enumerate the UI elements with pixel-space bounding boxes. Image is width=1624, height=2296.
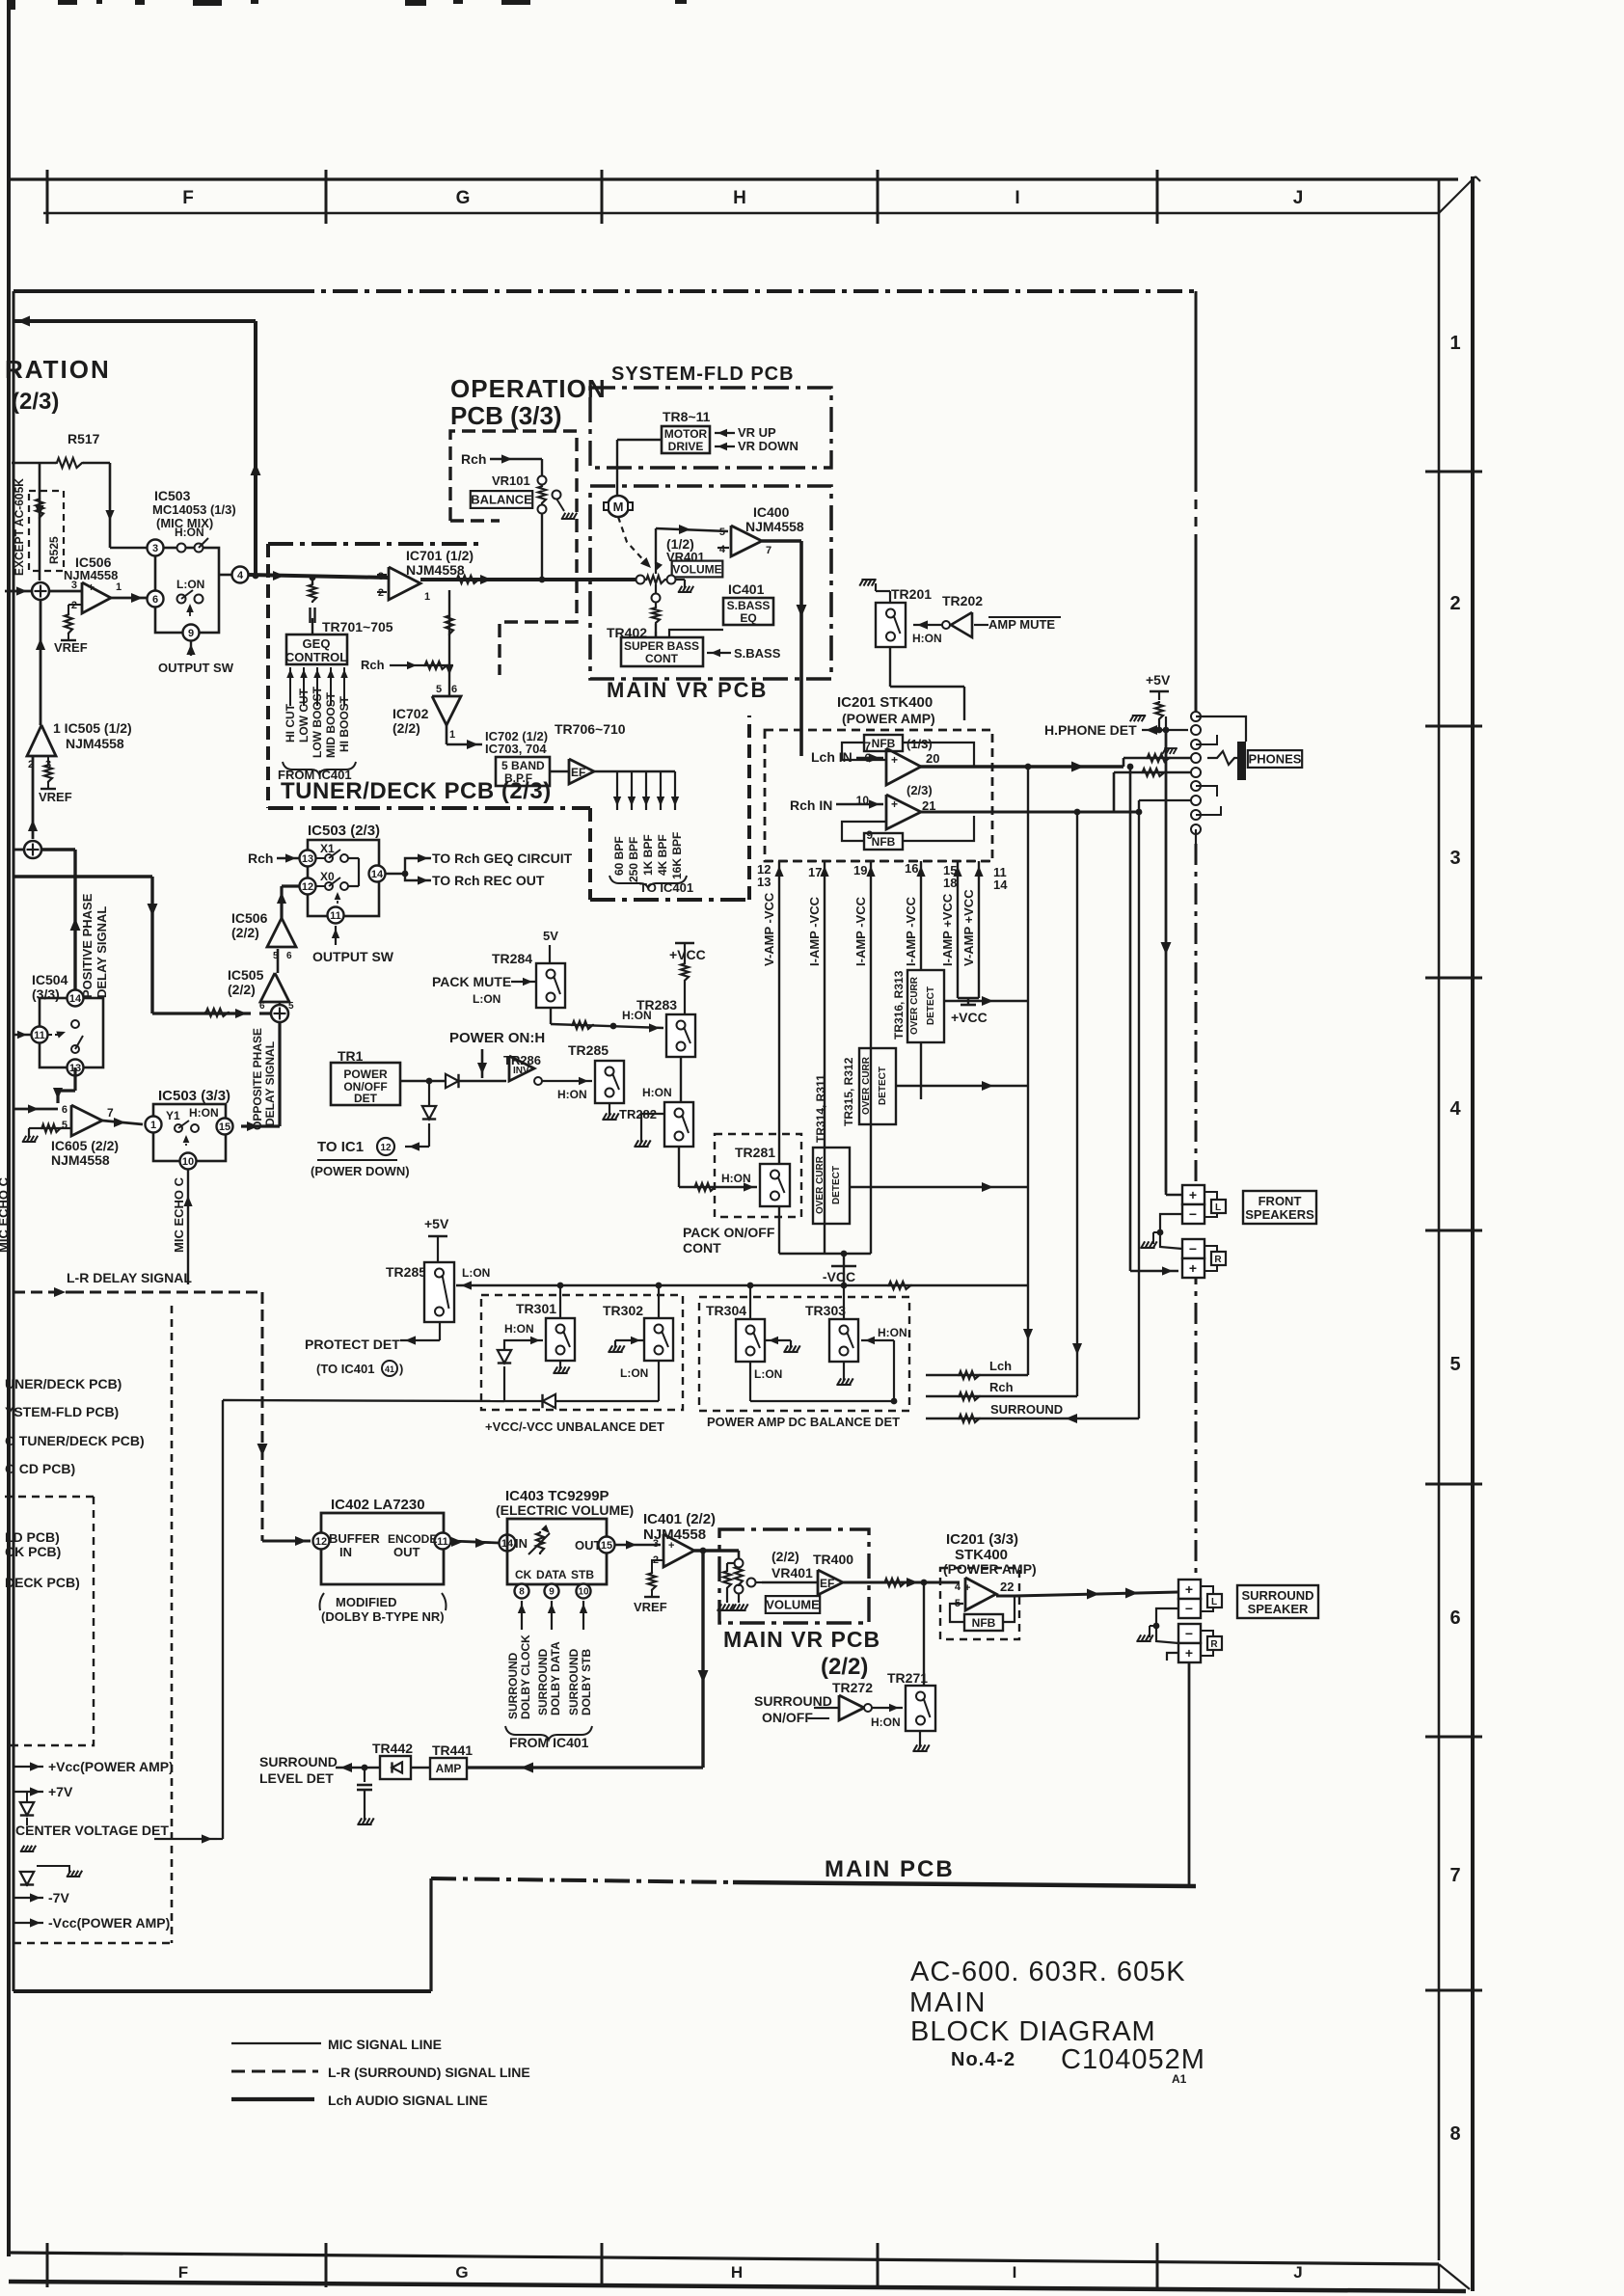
svg-text:FROM IC401: FROM IC401: [509, 1735, 589, 1750]
EF out wire to IC201 (3/3): [843, 1581, 960, 1584]
TR302 switch box: [658, 1285, 660, 1318]
svg-text:O TUNER/DECK PCB): O TUNER/DECK PCB): [5, 1433, 145, 1448]
svg-text:12: 12: [315, 1536, 327, 1548]
MIC ECHO C wire from node 10 down: [187, 1170, 189, 1284]
svg-text:+7V: +7V: [48, 1784, 73, 1799]
bottom ruler band: [9, 2253, 1439, 2264]
over current outputs to bus: [944, 1000, 1028, 1002]
svg-text:+: +: [1185, 1645, 1193, 1661]
svg-text:R: R: [1210, 1639, 1218, 1650]
wire IC402 out to IC403 in: [451, 1541, 499, 1543]
svg-text:H:ON: H:ON: [871, 1715, 901, 1729]
svg-text:IC702: IC702: [392, 706, 429, 721]
svg-text:14: 14: [371, 869, 384, 880]
ground pair below center voltage det: [37, 1865, 56, 1867]
summing node (+) left: [5, 590, 32, 593]
svg-text:PACK MUTE: PACK MUTE: [432, 974, 511, 989]
MAIN PCB bottom step: [429, 1878, 432, 1991]
+Vcc (POWER AMP) arrow label: [14, 1766, 43, 1768]
svg-text:6: 6: [286, 951, 292, 961]
svg-text:): ): [399, 1362, 403, 1376]
TR303 base arrow: [861, 1339, 894, 1341]
S.BASS arrow into super bass cont: [707, 652, 731, 654]
TUNER/DECK PCB (2/3) dash-dot boundary: [268, 542, 479, 546]
svg-text:CONTROL: CONTROL: [285, 650, 347, 664]
svg-text:Lch AUDIO SIGNAL LINE: Lch AUDIO SIGNAL LINE: [328, 2093, 488, 2108]
svg-text:BUFFER: BUFFER: [329, 1531, 380, 1546]
svg-text:MAIN VR PCB: MAIN VR PCB: [607, 678, 768, 702]
svg-text:6: 6: [152, 594, 158, 606]
svg-text:Rch: Rch: [361, 658, 385, 672]
svg-text:+VCC: +VCC: [951, 1010, 988, 1025]
svg-text:(TO IC401: (TO IC401: [316, 1362, 374, 1376]
main Lch wire through operation pcb: [249, 575, 389, 578]
TR304 base arrow + ground: [765, 1339, 791, 1341]
svg-text:+5V: +5V: [1146, 672, 1171, 688]
wire across to unbalance diode: [223, 1400, 504, 1401]
svg-text:MAIN PCB: MAIN PCB: [825, 1856, 955, 1882]
surround output wire to speaker: [996, 1595, 1015, 1598]
svg-text:J: J: [1293, 2263, 1302, 2282]
TR285 mid ground: [609, 1103, 610, 1116]
surround speaker R tab: [1201, 1631, 1213, 1636]
svg-text:+5V: +5V: [424, 1216, 449, 1231]
TR285 mid switch box: [595, 1061, 624, 1103]
svg-text:15: 15: [219, 1121, 230, 1133]
TR202 inverter (points left): [951, 612, 972, 637]
left page border line: [7, 0, 11, 2256]
svg-text:No.4-2: No.4-2: [951, 2049, 1015, 2070]
IC505 VREF resistor: [47, 756, 49, 764]
svg-text:L: L: [1211, 1597, 1217, 1607]
wire IC605 out to node1: [102, 1121, 143, 1124]
IC401 output wire right + down: [694, 1549, 739, 1552]
svg-text:(2/2): (2/2): [231, 925, 259, 940]
TR400 EF buffer: [818, 1570, 843, 1595]
svg-text:MOTOR: MOTOR: [664, 427, 708, 441]
wire from IC701 down to IC702: [448, 590, 450, 665]
bottom ruler corner cell with diagonal: [1438, 2264, 1440, 2291]
svg-text:2: 2: [1449, 593, 1460, 614]
main detect feed wire: [456, 1284, 1028, 1286]
svg-text:TR706~710: TR706~710: [555, 721, 626, 737]
wire VR401 wiper up to IC400 +input: [655, 528, 657, 564]
svg-text:VR101: VR101: [492, 473, 530, 488]
svg-text:15: 15: [601, 1540, 612, 1552]
svg-text:IC503: IC503: [154, 488, 191, 503]
wire TR283 down to TR282: [680, 1057, 682, 1102]
svg-text:Rch: Rch: [248, 851, 273, 866]
svg-text:VREF: VREF: [39, 790, 72, 804]
svg-text:13: 13: [757, 875, 771, 889]
svg-text:MODIFIED: MODIFIED: [336, 1595, 397, 1609]
svg-text:TR442: TR442: [372, 1741, 413, 1756]
svg-text:+: +: [1185, 1581, 1193, 1597]
junction to TR271: [923, 1582, 925, 1686]
svg-text:OUTPUT SW: OUTPUT SW: [158, 661, 234, 675]
svg-text:AC-600. 603R. 605K: AC-600. 603R. 605K: [910, 1957, 1186, 1987]
svg-text:TR314, R311: TR314, R311: [814, 1074, 827, 1143]
svg-text:V-AMP -VCC: V-AMP -VCC: [762, 892, 776, 966]
TR285 protect switch box: [424, 1262, 454, 1322]
svg-text:DOLBY STB: DOLBY STB: [580, 1649, 593, 1715]
wire from left into node 11: [14, 1034, 31, 1036]
I-AMP -VCC supply wire pin16: [920, 861, 922, 970]
svg-text:NFB: NFB: [972, 1616, 996, 1630]
svg-text:1: 1: [424, 591, 430, 603]
ground above TR201: [876, 590, 890, 592]
svg-text:NJM4558: NJM4558: [51, 1152, 110, 1168]
svg-text:1K BPF: 1K BPF: [641, 834, 655, 876]
svg-text:TR201: TR201: [891, 586, 932, 602]
svg-text:TR1: TR1: [338, 1048, 364, 1064]
svg-text:TR284: TR284: [492, 951, 532, 966]
VR401 node below wiper: [652, 594, 661, 603]
-Vcc (POWER AMP) arrow label: [14, 1922, 43, 1924]
svg-text:5: 5: [1449, 1354, 1460, 1375]
wire below surround speaker to main pcb boundary: [1188, 1662, 1191, 1886]
-7V arrow label: [14, 1897, 43, 1899]
motor M symbol: [608, 496, 629, 517]
surround speaker terminal block: [1178, 1580, 1201, 1599]
svg-text:5: 5: [288, 1001, 294, 1012]
power amp dashed box bottom pins row: [765, 860, 992, 863]
svg-text:IC503 (2/3): IC503 (2/3): [308, 823, 380, 839]
svg-text:3: 3: [71, 580, 77, 591]
TR282 wire down to TR281: [678, 1147, 680, 1187]
IC504 switch contacts: [71, 1020, 79, 1028]
svg-text:SPEAKERS: SPEAKERS: [1245, 1207, 1314, 1222]
svg-text:5: 5: [719, 527, 725, 538]
svg-text:H.PHONE DET: H.PHONE DET: [1044, 722, 1137, 738]
svg-text:TO IC401: TO IC401: [639, 880, 693, 895]
svg-text:6: 6: [259, 1001, 265, 1012]
svg-text:TR316, R313: TR316, R313: [892, 970, 906, 1040]
svg-text:GEQ: GEQ: [303, 636, 331, 651]
TR283 switch box: [666, 1014, 695, 1057]
switch contacts row 2: [177, 595, 186, 604]
svg-text:(POWER DOWN): (POWER DOWN): [311, 1164, 410, 1178]
svg-text:L:ON: L:ON: [620, 1366, 648, 1380]
wire from summing node down (MIC vertical): [40, 600, 42, 725]
switch contacts row 1: [177, 544, 186, 553]
TR284 switch box: [536, 963, 565, 1008]
svg-text:SYSTEM-FLD PCB: SYSTEM-FLD PCB: [611, 364, 795, 385]
ground right of VR401: [675, 579, 685, 581]
svg-text:DETECT: DETECT: [926, 986, 936, 1025]
svg-text:41: 41: [385, 1364, 394, 1374]
svg-text:A1: A1: [1172, 2072, 1187, 2086]
svg-text:+: +: [668, 1540, 674, 1552]
VOLUME boxed label: [672, 561, 723, 578]
svg-text:LOW BOOST: LOW BOOST: [311, 686, 324, 758]
svg-text:TR8~11: TR8~11: [663, 409, 711, 424]
svg-text:TR701~705: TR701~705: [322, 619, 393, 635]
resistor R525 dashed box: [29, 491, 64, 571]
svg-text:X1: X1: [320, 842, 335, 855]
thick wire down x78 to IC504: [73, 850, 76, 998]
IC402 box: [321, 1513, 444, 1584]
svg-text:I: I: [1015, 188, 1019, 208]
supply bus bottom tie: [779, 1253, 871, 1255]
NFB box lower: [864, 833, 903, 850]
svg-text:+: +: [1189, 1260, 1197, 1276]
svg-text:TR304: TR304: [706, 1303, 746, 1318]
svg-text:I: I: [1013, 2263, 1017, 2282]
TR1 POWER ON/OFF DET box: [331, 1063, 400, 1105]
svg-text:CK: CK: [515, 1568, 532, 1581]
svg-text:−: −: [1185, 1626, 1193, 1641]
wire L-R into IC402 node 12: [261, 1535, 264, 1541]
node14 wire to outputs: [386, 873, 405, 875]
-VCC symbol under bus: [831, 1265, 856, 1268]
svg-text:5 BAND: 5 BAND: [501, 759, 545, 772]
svg-text:AMP MUTE: AMP MUTE: [988, 617, 1055, 632]
svg-text:OVER CURR: OVER CURR: [909, 976, 920, 1035]
svg-text:TR281: TR281: [735, 1145, 775, 1160]
TR284 wire down and right to TR283: [550, 1008, 552, 1024]
NFB box surround: [964, 1614, 1003, 1631]
thick wire down to surround level amp: [701, 1551, 704, 1768]
TR301 ground: [559, 1361, 561, 1369]
svg-text:(2/2): (2/2): [392, 720, 420, 736]
svg-text:20: 20: [926, 751, 939, 766]
TO IC401 brace under BPF: [609, 876, 687, 888]
svg-text:(2/3): (2/3): [907, 783, 933, 797]
svg-text:INV: INV: [513, 1066, 529, 1076]
svg-text:TR272: TR272: [832, 1680, 873, 1695]
svg-text:BALANCE: BALANCE: [471, 493, 532, 507]
svg-text:(ELECTRIC VOLUME): (ELECTRIC VOLUME): [496, 1502, 634, 1518]
TR282 switch box: [664, 1102, 693, 1147]
svg-text:IC503 (3/3): IC503 (3/3): [158, 1088, 230, 1104]
svg-text:H:ON: H:ON: [878, 1326, 907, 1339]
wire from motor drive to motor: [617, 439, 662, 441]
svg-text:M: M: [613, 500, 624, 514]
svg-text:250 BPF: 250 BPF: [627, 837, 640, 882]
TR272 inverter: [839, 1695, 864, 1720]
svg-text:+VCC/-VCC UNBALANCE DET: +VCC/-VCC UNBALANCE DET: [485, 1419, 664, 1434]
wire node4 to right joining bus: [219, 574, 231, 577]
svg-text:OPERATION: OPERATION: [450, 374, 607, 403]
TR282 side ground: [641, 1114, 664, 1143]
svg-text:FROM IC401: FROM IC401: [278, 768, 352, 782]
inner dashed box (FLD/deck pcb feeds): [5, 1497, 94, 1745]
svg-text:14: 14: [69, 993, 82, 1005]
wire phones row down to front speakers Lch: [1165, 730, 1168, 1192]
svg-text:DECK PCB): DECK PCB): [5, 1575, 80, 1590]
IC504 switch box: [40, 998, 103, 1067]
svg-text:Rch: Rch: [461, 451, 486, 467]
svg-text:19: 19: [853, 863, 867, 878]
svg-text:DOLBY DATA: DOLBY DATA: [549, 1641, 562, 1715]
wire front speaker + L from bus: [1165, 1192, 1168, 1195]
unbalance det bottom wire with diode: [504, 1400, 659, 1402]
svg-text:MAIN VR PCB: MAIN VR PCB: [723, 1627, 880, 1652]
scan marks at top edge: [8, 0, 15, 10]
wire IC505(2/2) to IC506(2/2): [277, 949, 280, 973]
diode at left rail bottom: [26, 1873, 28, 1886]
speaker feed junction dots: [1163, 727, 1170, 734]
thick wire IC504 node13 down to IC605: [73, 1067, 76, 1091]
surround dolby clock/data/stb feeds: [521, 1601, 523, 1630]
svg-text:F: F: [178, 2263, 188, 2282]
svg-text:IC505: IC505: [228, 967, 264, 983]
svg-text:VOLUME: VOLUME: [766, 1598, 820, 1612]
SUPER BASS CONT box: [621, 637, 703, 666]
SURROUND SPEAKER boxed label: [1237, 1585, 1318, 1618]
IC403 box: [507, 1519, 607, 1584]
svg-text:H:ON: H:ON: [642, 1086, 672, 1099]
svg-text:O CD PCB): O CD PCB): [5, 1461, 75, 1476]
svg-text:POWER ON:H: POWER ON:H: [449, 1030, 545, 1046]
wire down to IC503 pin3: [109, 463, 112, 548]
svg-text:SPEAKER: SPEAKER: [1248, 1602, 1309, 1616]
svg-text:TO Rch REC OUT: TO Rch REC OUT: [432, 873, 545, 888]
svg-text:5: 5: [436, 684, 442, 695]
svg-text:DETECT: DETECT: [831, 1166, 842, 1204]
svg-text:EF: EF: [571, 766, 585, 779]
MOTOR DRIVE box: [662, 426, 710, 453]
svg-text:TR315, R312: TR315, R312: [842, 1057, 855, 1126]
svg-text:AMP: AMP: [436, 1762, 462, 1775]
svg-text:DELAY SIGNAL: DELAY SIGNAL: [263, 1041, 277, 1126]
svg-text:IC402 LA7230: IC402 LA7230: [331, 1497, 425, 1513]
svg-text:NFB: NFB: [872, 737, 896, 750]
svg-text:17: 17: [808, 865, 822, 879]
svg-text:8: 8: [1449, 2123, 1460, 2145]
+7V arrow label: [14, 1791, 43, 1793]
OPERATION PCB (3/3) dashed box: [450, 431, 577, 675]
svg-text:VR UP: VR UP: [738, 425, 776, 440]
svg-text:TR271: TR271: [887, 1670, 928, 1686]
svg-text:MIC ECHO C: MIC ECHO C: [0, 1176, 11, 1253]
svg-text:-7V: -7V: [48, 1890, 69, 1905]
Rch output wire to phones: [919, 811, 1139, 814]
zener diodes on left rail: [26, 1792, 28, 1805]
svg-text:H:ON: H:ON: [504, 1322, 534, 1336]
resistor below VR401 to super bass: [655, 603, 657, 608]
svg-text:CONT: CONT: [683, 1240, 721, 1256]
VOLUME boxed label 2: [766, 1596, 820, 1613]
svg-text:OUTPUT SW: OUTPUT SW: [312, 949, 394, 964]
wire down from R517 to summing node: [39, 463, 41, 581]
svg-text:NJM4558: NJM4558: [406, 562, 465, 578]
L-R delay dashed wire: [14, 1291, 72, 1294]
svg-text:6: 6: [451, 684, 457, 695]
TR302 base ground: [615, 1339, 644, 1341]
surround speaker L tab: [1201, 1586, 1213, 1594]
svg-text:TR202: TR202: [942, 593, 983, 608]
svg-text:10: 10: [578, 1587, 589, 1598]
svg-text:VR401: VR401: [771, 1565, 813, 1580]
svg-text:L-R DELAY SIGNAL: L-R DELAY SIGNAL: [67, 1270, 192, 1285]
svg-text:Rch: Rch: [989, 1380, 1014, 1394]
front speakers terminal block: [1182, 1185, 1204, 1204]
svg-text:EF: EF: [820, 1577, 834, 1590]
svg-text:L:ON: L:ON: [462, 1266, 490, 1280]
svg-text:POWER: POWER: [343, 1067, 388, 1081]
NFB loop surround: [950, 1604, 964, 1622]
svg-text:MC14053 (1/3): MC14053 (1/3): [152, 502, 236, 517]
TR281 dashed box: [715, 1134, 801, 1217]
ground at phones contact 1: [1130, 716, 1146, 721]
svg-text:IC401: IC401: [728, 581, 765, 597]
svg-text:S.BASS: S.BASS: [727, 599, 771, 612]
+VCC/-VCC UNBALANCE DET dashed box: [481, 1295, 683, 1410]
svg-text:F: F: [182, 188, 194, 208]
TR271 ground: [919, 1731, 921, 1747]
svg-text:1: 1: [116, 581, 122, 593]
svg-text:TR441: TR441: [432, 1742, 473, 1758]
svg-text:G: G: [455, 2263, 468, 2282]
svg-text:13: 13: [302, 853, 313, 865]
GEQ capacitor + resistor from Lch bus: [310, 575, 316, 581]
IC401 VREF resistor: [652, 1560, 663, 1572]
svg-text:18: 18: [943, 876, 957, 890]
wire IC403 out to IC401 op-amp: [615, 1544, 661, 1547]
front speaker minus loop + ground: [1160, 1214, 1182, 1249]
wire down to front speaker Rch: [1129, 767, 1132, 1271]
wire from IC401 feed into AMP: [467, 1766, 703, 1769]
resistor to phones tip: [1123, 758, 1125, 767]
+VCC feed for amp: [958, 997, 979, 999]
svg-text:VR DOWN: VR DOWN: [738, 439, 798, 453]
svg-text:C104052M: C104052M: [1061, 2044, 1205, 2075]
left dashed power rail boundary: [171, 1306, 174, 1943]
svg-text:PROTECT DET: PROTECT DET: [305, 1337, 400, 1352]
svg-text:DRIVE: DRIVE: [668, 440, 704, 453]
legend Lch AUDIO SIGNAL LINE: [231, 2097, 314, 2101]
volume 2 grounds: [738, 1594, 740, 1603]
svg-text:1: 1: [1449, 333, 1460, 354]
surround speaker return wire: [1167, 1653, 1178, 1661]
wire TR286 to TR285: [542, 1080, 592, 1082]
phones jack body: [1237, 742, 1246, 780]
svg-text:MID BOOST: MID BOOST: [324, 691, 338, 758]
svg-text:(2/2): (2/2): [771, 1549, 799, 1564]
svg-text:EQ: EQ: [740, 611, 756, 625]
svg-text:I-AMP -VCC: I-AMP -VCC: [853, 896, 868, 966]
svg-text:Rch IN: Rch IN: [790, 797, 832, 813]
svg-text:TR302: TR302: [603, 1303, 643, 1318]
TR201 wires: [889, 591, 891, 603]
svg-text:+: +: [1189, 1187, 1197, 1202]
wires fanning to BPF arrows: [594, 770, 675, 772]
svg-text:+: +: [964, 1582, 970, 1594]
svg-text:VOLUME: VOLUME: [672, 562, 721, 576]
svg-text:+Vcc(POWER AMP): +Vcc(POWER AMP): [48, 1759, 174, 1774]
V-AMP +VCC supply wire pin11/14: [978, 861, 980, 998]
svg-text:11: 11: [330, 910, 341, 922]
svg-text:H: H: [733, 188, 746, 208]
svg-text:16K BPF: 16K BPF: [670, 832, 684, 879]
wire up into IC505 from below: [32, 756, 35, 839]
front speaker L tab: [1204, 1192, 1217, 1200]
svg-text:B.P.F: B.P.F: [504, 771, 532, 785]
svg-text:60 BPF: 60 BPF: [612, 836, 626, 876]
svg-text:UNER/DECK PCB): UNER/DECK PCB): [5, 1376, 122, 1391]
svg-text:L:ON: L:ON: [176, 578, 204, 591]
svg-text:PCB (3/3): PCB (3/3): [450, 401, 562, 430]
svg-text:MAIN: MAIN: [909, 1987, 988, 2018]
Lch return bus down: [1027, 767, 1029, 1375]
I-AMP -VCC supply wire pin19: [870, 861, 872, 1254]
IC503(3/3) switch contacts: [175, 1124, 182, 1132]
svg-text:TR285: TR285: [386, 1264, 426, 1280]
top ruler band: [9, 177, 1458, 180]
svg-text:DETECT: DETECT: [878, 1067, 888, 1105]
